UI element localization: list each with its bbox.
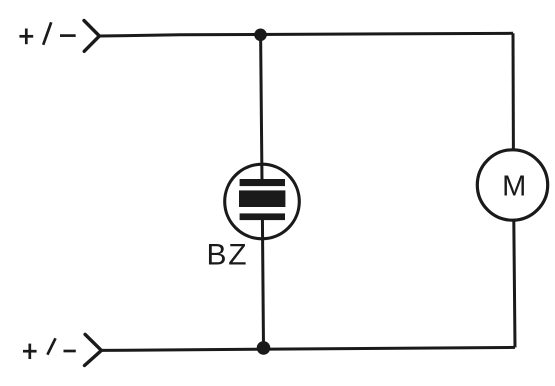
junction bottom node: [257, 341, 271, 355]
node +/- bottom input label: [23, 338, 76, 359]
motor M1: [477, 150, 547, 220]
terminal arrow bottom input: [85, 334, 102, 365]
wire buzzer branch upper: [261, 35, 262, 182]
wire top rail: [99, 33, 513, 36]
buzzer BZ: [225, 164, 300, 239]
svg-text:BZ: BZ: [207, 238, 249, 271]
junction top node: [254, 29, 267, 42]
wire right rail lower: [514, 220, 515, 347]
node +/- top input label: [19, 22, 75, 45]
terminal arrow top input: [84, 21, 99, 52]
wire buzzer branch lower: [262, 217, 263, 348]
wire bottom rail: [101, 347, 515, 350]
wire right rail upper: [512, 33, 515, 150]
svg-text:M: M: [502, 170, 526, 202]
